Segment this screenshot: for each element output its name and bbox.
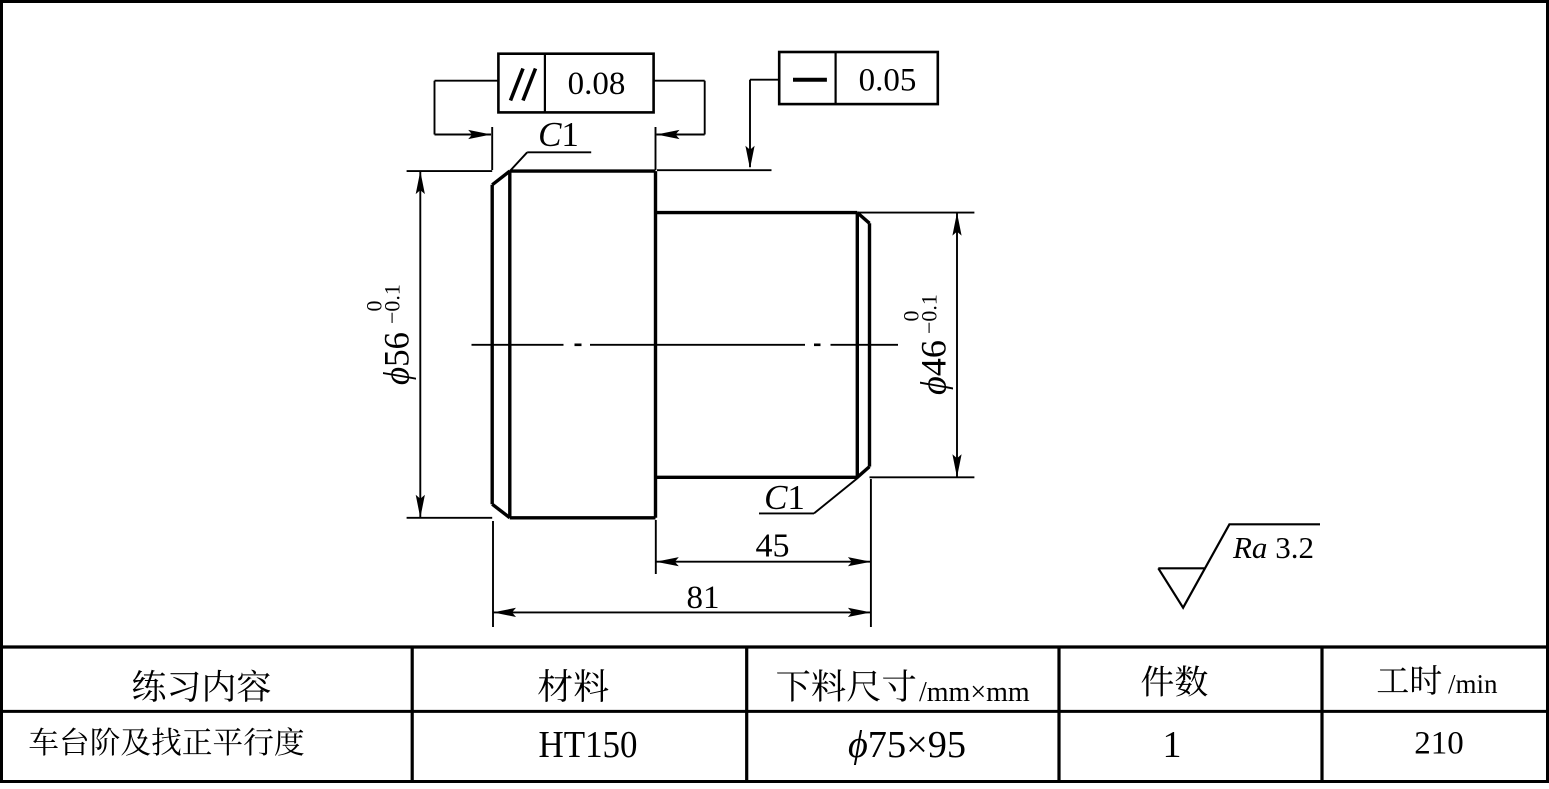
svg-text:45: 45 <box>756 528 790 565</box>
svg-text:1: 1 <box>1163 724 1182 766</box>
svg-text:/mm×mm: /mm×mm <box>919 677 1030 708</box>
svg-text:ϕ75×95: ϕ75×95 <box>848 724 966 766</box>
svg-text:−0.1: −0.1 <box>916 294 941 334</box>
svg-text:0.05: 0.05 <box>859 63 917 99</box>
svg-text:C1: C1 <box>538 115 579 154</box>
svg-text:HT150: HT150 <box>539 724 638 766</box>
svg-text:−0.1: −0.1 <box>379 284 404 324</box>
svg-text:/min: /min <box>1448 669 1498 699</box>
svg-text:210: 210 <box>1414 726 1464 762</box>
svg-text:81: 81 <box>687 580 720 616</box>
svg-text:C1: C1 <box>764 478 805 517</box>
svg-text:ϕ46: ϕ46 <box>913 340 953 395</box>
svg-text:0.08: 0.08 <box>568 66 626 102</box>
svg-text:Ra 3.2: Ra 3.2 <box>1232 530 1314 565</box>
svg-text:ϕ56: ϕ56 <box>376 332 416 385</box>
